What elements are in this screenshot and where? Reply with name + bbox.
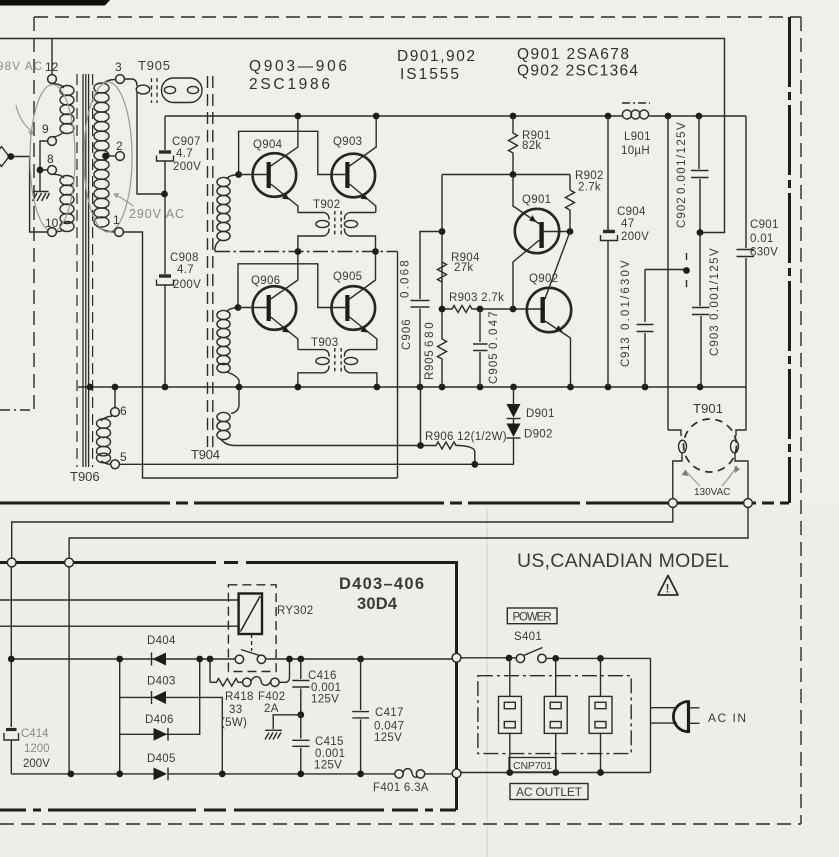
wire base rail y174.5	[442, 174, 570, 176]
node C907/T905	[161, 191, 168, 198]
upper block thick dash-dot border: bottom edge	[0, 502, 789, 505]
Q903/Q904 base tie loop	[239, 131, 346, 174]
wire left drop to C906/R904	[441, 175, 443, 310]
diode D406	[154, 728, 168, 741]
svg-text:C906: C906	[401, 319, 413, 350]
warning triangle	[658, 576, 678, 596]
svg-text:C902: C902	[676, 197, 688, 228]
relay contact link	[251, 634, 253, 651]
bias dash-dot line	[215, 251, 398, 253]
node T902 left bottom	[295, 248, 302, 255]
svg-text:C913: C913	[620, 337, 632, 367]
svg-text:C417: C417	[375, 707, 404, 719]
node T902 right bottom	[372, 248, 379, 255]
svg-text:Q903: Q903	[333, 136, 362, 148]
wire C907 branch	[164, 116, 166, 387]
svg-text:D901,902: D901,902	[397, 48, 476, 65]
lower box thick dash-dot border: top edge	[0, 561, 456, 564]
T904 core lines	[207, 76, 209, 447]
wire pin1 loop	[123, 232, 397, 478]
capacitor C417	[357, 656, 364, 663]
ground at C415/C416 junction	[273, 715, 301, 729]
svg-text:Q904: Q904	[253, 139, 283, 151]
resistor R901	[509, 116, 518, 175]
transformer T902	[298, 211, 376, 252]
AC hot row	[11, 658, 452, 660]
wire left AC drop + C414	[10, 567, 12, 727]
capacitor C416	[297, 656, 304, 663]
svg-text:200V: 200V	[173, 279, 201, 291]
svg-text:R906 12(1/2W): R906 12(1/2W)	[425, 431, 507, 443]
outer thin dashed border: bottom edge	[0, 823, 801, 825]
svg-text:C908: C908	[170, 252, 199, 264]
svg-text:30D4: 30D4	[357, 595, 398, 613]
svg-text:IS1555: IS1555	[400, 66, 460, 83]
resistor R418 + fuse F402 bypass	[210, 659, 243, 686]
AC plug feed wires	[651, 658, 678, 772]
svg-text:F401 6.3A: F401 6.3A	[373, 782, 429, 794]
svg-text:630V: 630V	[750, 247, 778, 259]
svg-text:0.001/125V: 0.001/125V	[709, 248, 721, 320]
svg-text:130VAC: 130VAC	[694, 487, 731, 498]
outlet bottom row	[461, 772, 651, 774]
capacitor C414	[4, 730, 19, 741]
svg-text:D403: D403	[147, 676, 176, 688]
transistor Q902	[527, 232, 571, 388]
svg-text:D404: D404	[147, 635, 176, 647]
svg-text:6: 6	[120, 404, 127, 418]
border circles on lower box right edge	[452, 653, 461, 662]
svg-text:2SC1986: 2SC1986	[249, 76, 331, 93]
wire pin9 to pin8	[40, 141, 48, 170]
bridge left rail	[119, 659, 121, 774]
svg-text:AC IN: AC IN	[708, 711, 748, 725]
svg-text:(5W): (5W)	[221, 717, 247, 729]
svg-text:12: 12	[45, 60, 59, 74]
svg-text:0.047: 0.047	[488, 311, 500, 349]
outlet 3	[589, 658, 612, 772]
svg-text:T904: T904	[191, 447, 220, 462]
capacitor C906	[420, 232, 442, 300]
svg-text:33: 33	[229, 704, 242, 716]
svg-text:D901: D901	[526, 408, 555, 420]
svg-text:C415: C415	[315, 736, 344, 748]
AC OUTLET label box	[510, 784, 588, 800]
top AC wire	[0, 39, 725, 233]
svg-text:T906: T906	[70, 469, 100, 484]
grey ellipse around secondary	[84, 82, 132, 232]
transformer T906 primary lower winding	[52, 174, 74, 231]
svg-text:D405: D405	[147, 753, 176, 765]
svg-text:125V: 125V	[374, 732, 402, 744]
svg-text:125V: 125V	[314, 760, 342, 772]
svg-text:Q902: Q902	[529, 273, 558, 285]
capacitor C901	[745, 116, 747, 248]
transistor Q904	[239, 116, 298, 213]
capacitor C913	[645, 269, 687, 271]
svg-text:R905: R905	[424, 350, 436, 380]
inductor L901	[622, 103, 650, 119]
svg-text:AC OUTLET: AC OUTLET	[516, 785, 583, 799]
130VAC arrows	[685, 470, 700, 486]
outlet CNP701 dash-dot enclosure	[478, 676, 631, 754]
T904 middle winding	[217, 308, 239, 388]
T906 lower secondary winding (pins 6-5)	[97, 416, 113, 464]
svg-text:0.068: 0.068	[400, 260, 412, 298]
svg-text:27k: 27k	[454, 262, 473, 274]
node hot row left	[8, 656, 15, 663]
transistor Q903	[332, 116, 377, 213]
svg-text:!: !	[666, 582, 670, 596]
svg-text:0.001/125V: 0.001/125V	[676, 122, 688, 194]
svg-text:1: 1	[113, 213, 120, 227]
Q905/Q906 base tie loop	[238, 264, 345, 308]
svg-text:2: 2	[116, 139, 123, 153]
bottom bus	[78, 386, 746, 388]
POWER label box	[507, 608, 557, 624]
svg-text:Q906: Q906	[251, 275, 280, 287]
wire top bus to T901 left	[667, 116, 669, 430]
wire right AC drop	[68, 567, 70, 774]
capacitor C903	[699, 233, 701, 307]
diode D405	[154, 768, 168, 781]
svg-text:200V: 200V	[23, 758, 50, 770]
svg-text:F402: F402	[258, 691, 285, 703]
diode D404	[153, 653, 167, 666]
top black bar	[0, 0, 110, 6]
svg-text:CNP701: CNP701	[513, 760, 552, 772]
wire bias to pin1 loop	[397, 252, 399, 479]
faint paper fold line	[486, 508, 488, 857]
wire pin12 to top AC wire	[51, 39, 53, 75]
svg-text:0.047: 0.047	[374, 721, 404, 733]
svg-text:C414: C414	[21, 728, 49, 740]
top bus	[165, 115, 746, 117]
diode D901	[513, 387, 515, 404]
outer thin dashed border: right edge	[800, 17, 802, 824]
transformer T906 primary upper winding	[52, 83, 74, 137]
T906 core lines	[77, 74, 93, 467]
svg-text:T902: T902	[313, 199, 340, 211]
wire pin6 to bottom bus	[114, 387, 116, 408]
resistor R902	[566, 175, 575, 232]
lower box solid right edge	[455, 561, 458, 810]
svg-text:0.001: 0.001	[311, 682, 341, 694]
svg-text:Q905: Q905	[333, 271, 362, 283]
transformer T901	[668, 387, 748, 502]
svg-text:D902: D902	[524, 429, 553, 441]
diode D403	[153, 691, 167, 704]
bottom AC bus	[11, 773, 452, 775]
resistor R904	[438, 262, 447, 282]
AC plug	[673, 702, 688, 732]
grey arrow 290V AC	[114, 194, 133, 206]
svg-text:R903 2.7k: R903 2.7k	[449, 292, 504, 304]
outer thin dashed border: left edge	[33, 17, 35, 410]
transistor Q906	[238, 252, 298, 350]
svg-text:8: 8	[47, 152, 54, 166]
switch S401 row	[461, 657, 651, 660]
nodes on hot row	[196, 656, 203, 663]
svg-text:10: 10	[45, 216, 59, 230]
svg-text:98V AC: 98V AC	[0, 61, 42, 73]
resistor R903	[442, 306, 480, 313]
svg-text:1200: 1200	[24, 743, 50, 755]
svg-text:0.001: 0.001	[315, 748, 345, 760]
svg-text:125V: 125V	[311, 694, 339, 706]
relay RY302 coil	[239, 594, 262, 635]
capacitor C415	[300, 715, 302, 739]
transformer T905	[124, 78, 202, 194]
border circles on upper box bottom	[668, 499, 677, 508]
capacitor C902	[698, 116, 700, 169]
svg-text:C901: C901	[750, 219, 779, 231]
wire T901 left output	[12, 508, 673, 559]
svg-text:C903: C903	[709, 325, 721, 356]
svg-text:2.7k: 2.7k	[578, 182, 601, 194]
svg-text:680: 680	[424, 322, 436, 347]
outer thin dashed border: top edge	[34, 16, 801, 18]
T906 pin2 tap	[106, 155, 116, 157]
pin circles T906	[48, 75, 57, 84]
node at diamond	[7, 153, 14, 160]
svg-text:T901: T901	[693, 401, 723, 416]
relay coil wires from off-page	[0, 600, 239, 626]
fuse F401	[395, 770, 403, 778]
wire diamond to pin10	[9, 157, 48, 233]
grey arrow from 98V AC	[16, 105, 33, 132]
svg-text:3: 3	[115, 60, 122, 74]
svg-text:S401: S401	[514, 631, 542, 643]
diode D902	[513, 419, 515, 424]
node Q906 base	[235, 304, 242, 311]
capacitor C904	[607, 116, 609, 230]
svg-text:R418: R418	[225, 691, 254, 703]
svg-text:200V: 200V	[173, 161, 201, 173]
svg-text:10µH: 10µH	[621, 145, 650, 157]
svg-text:Q901 2SA678: Q901 2SA678	[517, 46, 630, 63]
wire pin5 to the right	[119, 463, 514, 465]
T906 secondary big winding	[94, 80, 116, 233]
svg-text:9: 9	[42, 122, 49, 136]
capacitor C908	[157, 276, 174, 285]
transformer T903	[298, 348, 377, 387]
svg-text:Q902 2SC1364: Q902 2SC1364	[517, 63, 639, 80]
svg-text:RY302: RY302	[277, 605, 313, 617]
wire T901 right output	[69, 508, 748, 559]
bus junction dots	[87, 384, 94, 391]
svg-text:5: 5	[120, 450, 127, 464]
switch S401	[516, 654, 524, 662]
svg-text:C905: C905	[488, 353, 500, 384]
svg-text:D403–406: D403–406	[339, 575, 424, 593]
T904 bottom winding	[217, 387, 421, 446]
svg-text:T903: T903	[311, 337, 338, 349]
node Q904 base	[235, 171, 242, 178]
svg-text:4.7: 4.7	[177, 264, 194, 276]
svg-text:82k: 82k	[522, 140, 541, 152]
diode D406 row	[120, 659, 200, 734]
capacitor C905	[479, 309, 481, 342]
svg-text:290V AC: 290V AC	[129, 207, 184, 221]
upper block thick dash-dot border: right edge	[788, 17, 791, 503]
grey ellipse around primary	[30, 85, 75, 232]
node pin8/ground	[37, 167, 44, 174]
svg-text:Q901: Q901	[522, 194, 551, 206]
svg-text:200V: 200V	[621, 231, 649, 243]
resistor R905	[438, 309, 447, 387]
diode D403 row	[120, 697, 223, 774]
relay RY302 dashed enclosure	[228, 585, 276, 672]
top bus dots	[295, 113, 302, 120]
svg-text:Q903—906: Q903—906	[249, 58, 348, 75]
T904 upper winding	[215, 175, 239, 252]
svg-text:POWER: POWER	[513, 612, 552, 624]
svg-text:L901: L901	[624, 131, 651, 143]
border circles on lower box top	[7, 558, 16, 567]
resistor R906	[421, 387, 475, 464]
svg-text:US,CANADIAN MODEL: US,CANADIAN MODEL	[517, 550, 730, 572]
svg-text:D406: D406	[145, 714, 174, 726]
off-page diamond connector	[0, 147, 9, 167]
dash-dot jog at left edge y=410	[0, 409, 34, 411]
outlet 1	[499, 658, 522, 772]
svg-text:47: 47	[621, 218, 634, 230]
transistor Q901	[513, 175, 573, 310]
svg-text:4.7: 4.7	[176, 148, 193, 160]
relay contact	[241, 650, 261, 657]
svg-text:R902: R902	[575, 170, 604, 182]
svg-text:T905: T905	[138, 58, 170, 73]
svg-text:0.01: 0.01	[750, 233, 774, 245]
svg-text:C904: C904	[617, 206, 646, 218]
transistor Q905	[332, 252, 377, 350]
ground	[33, 170, 50, 201]
CNP701 label box	[509, 758, 556, 773]
wire R903 to Q902 base	[480, 308, 541, 310]
svg-text:2A: 2A	[264, 703, 279, 715]
capacitor C907	[157, 152, 174, 161]
svg-text:C907: C907	[172, 136, 201, 148]
outlet 2	[544, 658, 567, 772]
svg-text:C416: C416	[308, 670, 337, 682]
lower box thick dash-dot border: bottom edge	[0, 809, 456, 812]
